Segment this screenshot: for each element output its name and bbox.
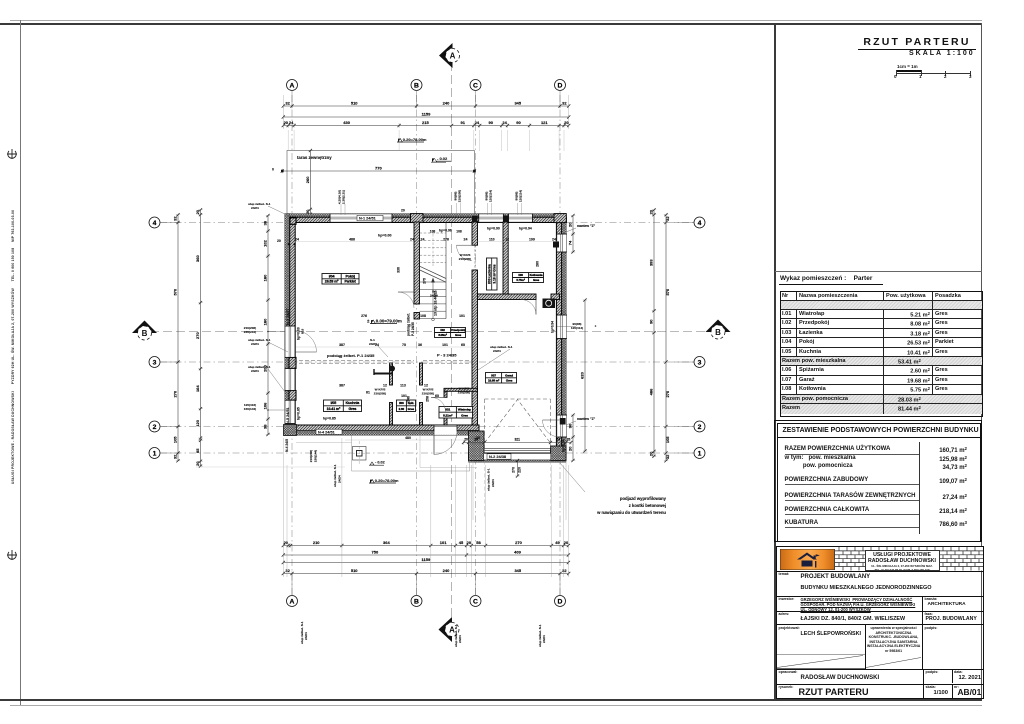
window label pair left terrace door: [244, 326, 285, 334]
title block: [776, 546, 984, 699]
garage door dashed outline: [485, 399, 551, 448]
garage inner dim chain: [462, 438, 573, 445]
svg-text:B: B: [414, 598, 419, 605]
grid axis C vertical dashed: [475, 95, 477, 597]
svg-text:387: 387: [339, 343, 345, 347]
front door leaf and swing arc: [434, 432, 457, 455]
interior wall bath-south: [478, 294, 537, 300]
projection dashed below garage door L: [484, 461, 486, 519]
svg-text:480: 480: [405, 436, 411, 440]
interior vertical dim 620 garage: [580, 298, 588, 452]
top grid circle B: [411, 80, 422, 91]
svg-text:108: 108: [430, 229, 436, 233]
svg-text:770: 770: [375, 166, 382, 171]
bottom dim chain 4: [282, 568, 571, 576]
svg-text:Garaż: Garaż: [505, 373, 513, 377]
svg-text:321: 321: [515, 438, 521, 442]
svg-text:276: 276: [361, 314, 367, 318]
svg-text:120(114): 120(114): [519, 190, 523, 202]
partition vestibule west upper: [444, 391, 447, 397]
svg-text:D: D: [558, 598, 563, 605]
svg-text:486: 486: [349, 238, 355, 242]
svg-text:65: 65: [435, 394, 439, 398]
svg-text:3: 3: [153, 359, 157, 366]
label hp=0.85 bottom window: [323, 416, 336, 420]
svg-text:Gres: Gres: [349, 407, 357, 411]
interior dim row kitchen: [339, 384, 428, 395]
svg-text:24: 24: [475, 120, 480, 125]
top section marker A: [439, 43, 460, 68]
beam P-3 dashed: [423, 361, 472, 364]
leader line window label 3: [488, 203, 492, 215]
window top wall boiler room: [509, 214, 533, 223]
svg-text:180: 180: [263, 274, 268, 281]
room schedule heading: [780, 275, 872, 282]
svg-text:24: 24: [410, 238, 414, 242]
top dim chain 2 total: [282, 112, 571, 120]
svg-text:1: 1: [153, 450, 157, 457]
vent right wall lower: [560, 418, 566, 425]
svg-text:0.20=78.00m: 0.20=78.00m: [403, 137, 427, 142]
foundation block garage right jamb: [551, 446, 567, 461]
door boiler room arc: [521, 300, 536, 315]
interior wall stair-west block: [414, 313, 420, 320]
svg-text:P-3 24/35: P-3 24/35: [411, 322, 415, 336]
svg-text:20: 20: [305, 209, 310, 214]
svg-text:26.53 m²: 26.53 m²: [325, 280, 339, 284]
svg-text:12: 12: [505, 238, 509, 242]
room label Przedpokoj I.02: [435, 328, 466, 338]
svg-text:nawiew "Z": nawiew "Z": [577, 417, 596, 421]
window label pair right: [557, 322, 596, 330]
kitchen hob: [374, 366, 395, 376]
bottom grid circle C: [470, 596, 481, 607]
beam label N-1 24/51: [357, 215, 383, 220]
svg-text:32: 32: [285, 101, 290, 106]
svg-text:24: 24: [295, 238, 299, 242]
elevation marker floor level: [367, 318, 402, 323]
svg-text:270: 270: [665, 390, 670, 397]
partition pantry-east: [420, 403, 423, 426]
svg-text:24/24: 24/24: [251, 342, 259, 346]
svg-text:20: 20: [564, 540, 569, 545]
svg-text:570: 570: [173, 288, 178, 295]
interior vertical dim 336: [397, 267, 401, 273]
top grid circle C: [470, 80, 481, 91]
right dim chain outer: [649, 208, 657, 458]
grid axis 1 horizontal dashed: [160, 452, 706, 454]
svg-text:słup żelbet. S-1: słup żelbet. S-1: [487, 468, 491, 491]
projection line below garage right: [565, 461, 567, 521]
interior dim row under top wall: [295, 238, 556, 242]
svg-text:2: 2: [698, 424, 702, 431]
svg-text:24/24: 24/24: [542, 635, 546, 643]
beam label podciag zelbet P-1 24/35: [327, 353, 375, 358]
svg-text:24/24: 24/24: [304, 632, 308, 640]
left grid circle 3: [149, 357, 160, 368]
svg-text:I/05: I/05: [331, 401, 337, 405]
wall garage front insulation: [469, 458, 567, 462]
room label Spizarnia I.06: [397, 400, 416, 412]
svg-text:235(231): 235(231): [244, 330, 256, 334]
svg-text:510: 510: [351, 568, 358, 573]
svg-text:816: 816: [301, 329, 305, 334]
svg-text:387: 387: [339, 384, 345, 388]
door terrace arc: [295, 331, 316, 352]
wall exterior top masonry: [287, 217, 567, 222]
wall exterior top insulation: [287, 214, 567, 218]
right dim chain inner: [664, 213, 670, 462]
wall exterior bottom masonry: [287, 425, 480, 431]
svg-text:5.21m²: 5.21m²: [443, 413, 452, 417]
room label Wiatrolap I.01: [439, 407, 473, 419]
svg-text:D: D: [558, 82, 563, 89]
window right wall garage: [556, 415, 567, 437]
svg-text:20: 20: [649, 451, 654, 456]
svg-text:110: 110: [489, 238, 495, 242]
svg-text:C: C: [473, 82, 478, 89]
svg-text:hp=0.94: hp=0.94: [551, 321, 555, 333]
svg-text:24: 24: [421, 238, 425, 242]
label hp=0.90 bath window: [430, 228, 462, 233]
svg-text:C: C: [473, 598, 478, 605]
svg-text:A: A: [290, 598, 295, 605]
svg-text:32: 32: [285, 568, 290, 573]
svg-text:Kuchnia: Kuchnia: [346, 401, 361, 405]
garage door dashed chevron: [485, 400, 551, 444]
left inner dim chain: [263, 214, 271, 436]
svg-text:hp=0.85: hp=0.85: [323, 416, 336, 420]
interior wall boiler-south: [551, 294, 560, 300]
left grid stub lines: [160, 223, 180, 454]
svg-text:75: 75: [402, 343, 406, 347]
room label Lazienka I.03 vertical: [487, 258, 498, 290]
column label S-1 bottom rotated 3: [538, 624, 546, 647]
left section marker B: [132, 321, 157, 341]
svg-text:2.60: 2.60: [399, 407, 405, 411]
svg-text:38: 38: [263, 220, 268, 225]
left margin mark bottom: [6, 549, 18, 561]
graphic scale bar: [897, 64, 918, 69]
column label S-1 lower left: [248, 365, 288, 396]
svg-text:20: 20: [568, 446, 573, 451]
right grid circle 4: [694, 217, 705, 228]
projection dashed below garage door R: [550, 461, 552, 519]
interior wall bath-boiler divider: [503, 222, 508, 294]
svg-text:270: 270: [195, 331, 200, 338]
svg-text:24/24: 24/24: [251, 369, 259, 373]
bottom grid circle D: [555, 596, 566, 607]
elevation marker driveway bottom: [369, 478, 399, 483]
svg-text:120(114): 120(114): [571, 326, 583, 330]
beam label N-4 24/51: [316, 429, 342, 434]
svg-text:24/24: 24/24: [491, 479, 495, 487]
svg-text:Gres: Gres: [455, 333, 462, 337]
projektowal row: [779, 626, 800, 630]
svg-text:750: 750: [372, 550, 379, 555]
svg-text:570: 570: [665, 288, 670, 295]
svg-text:0.00=79.00m: 0.00=79.00m: [376, 318, 402, 323]
faza cell: [925, 612, 933, 616]
left dim chain 1: [173, 213, 181, 462]
svg-text:32: 32: [665, 454, 670, 459]
interior wall hall-east upper: [472, 222, 478, 245]
svg-text:90: 90: [568, 423, 573, 428]
svg-text:2: 2: [153, 424, 157, 431]
firm name white box over bricks: [865, 550, 940, 571]
left margin rotated designer text: [11, 137, 15, 557]
left grid circle 4: [149, 217, 160, 228]
svg-text:podjazd wyprofilowany: podjazd wyprofilowany: [620, 496, 667, 501]
svg-text:510: 510: [351, 101, 358, 106]
section line B-B horizontal dashed: [150, 331, 712, 333]
svg-text:podciąg żelbet. P-1 24/35: podciąg żelbet. P-1 24/35: [327, 353, 375, 358]
svg-text:120: 120: [195, 419, 200, 426]
svg-text:49: 49: [555, 540, 560, 545]
terrace dim 260: [305, 149, 313, 216]
room label Kuchnia I.05: [324, 400, 362, 412]
svg-text:8.08m²: 8.08m²: [438, 333, 447, 337]
driveway note: [596, 496, 667, 515]
wall pilaster top B: [411, 214, 424, 223]
svg-text:36: 36: [418, 343, 422, 347]
interior dim row mid: [361, 314, 465, 318]
column label S-1 bottom rotated 1: [300, 464, 495, 644]
svg-text:A: A: [290, 82, 295, 89]
window left wall dining: [285, 369, 296, 391]
svg-text:słup żelbet. S-1: słup żelbet. S-1: [333, 464, 337, 487]
svg-text:3: 3: [698, 359, 702, 366]
boiler unit: [543, 299, 556, 309]
svg-text:Gres: Gres: [461, 413, 468, 417]
svg-text:I/01: I/01: [445, 408, 450, 412]
svg-text:B: B: [715, 328, 721, 337]
dim 20 above wall near B: [401, 209, 405, 213]
svg-text:74: 74: [568, 240, 573, 245]
svg-text:20: 20: [401, 209, 405, 213]
svg-text:I/07: I/07: [491, 373, 496, 377]
door vestibule arc: [431, 397, 446, 412]
svg-text:101: 101: [459, 314, 465, 318]
svg-text:24: 24: [552, 238, 556, 242]
svg-text:1: 1: [698, 450, 702, 457]
svg-text:20: 20: [277, 239, 281, 243]
svg-text:hp=0.94: hp=0.94: [519, 227, 532, 231]
svg-text:24/24: 24/24: [493, 349, 501, 353]
foundation block garage left jamb: [469, 431, 485, 461]
svg-text:32: 32: [173, 216, 178, 221]
interior vertical dim 280: [536, 261, 540, 267]
bottom dim chain 2: [282, 550, 570, 558]
svg-text:215: 215: [422, 120, 429, 125]
uprawnienia text: [866, 626, 922, 653]
svg-text:210(205): 210(205): [422, 392, 434, 396]
svg-text:24: 24: [289, 120, 294, 125]
wall exterior bottom insulation: [287, 431, 480, 436]
dim 20 left of wall: [277, 239, 281, 243]
top dim chain 1: [282, 101, 571, 109]
garage door label N-2 24/38: [487, 454, 511, 459]
svg-text:345: 345: [514, 101, 521, 106]
svg-text:20: 20: [567, 438, 571, 442]
label pair below wall rotated: [309, 450, 318, 462]
bottom grid circle B: [411, 596, 422, 607]
grid axis A vertical dashed: [291, 95, 293, 597]
svg-text:19.68 m²: 19.68 m²: [488, 379, 499, 383]
svg-text:Przedpokój: Przedpokój: [451, 328, 466, 332]
svg-text:210(205): 210(205): [374, 392, 386, 396]
window label pair top 2 rotated: [454, 190, 462, 202]
window label pair top 3 rotated: [485, 190, 493, 202]
svg-text:91: 91: [460, 120, 465, 125]
window top wall living room: [330, 214, 392, 223]
leader line window label 1: [341, 204, 345, 215]
window left wall kitchen: [285, 400, 296, 423]
room label Kotlownia I.08: [513, 273, 544, 283]
svg-text:Pokój: Pokój: [345, 275, 354, 279]
drawing title RZUT PARTERU: [858, 36, 976, 50]
label hp=0.90b: [487, 227, 500, 231]
svg-text:336: 336: [397, 267, 401, 273]
right wall stub dims: [568, 214, 576, 462]
rysunek row: [779, 685, 794, 689]
svg-text:5.75m²: 5.75m²: [516, 278, 525, 282]
bottom grid stub lines: [292, 574, 560, 596]
stairs break line: [420, 266, 446, 282]
svg-text:393: 393: [649, 259, 654, 266]
svg-text:150(144): 150(144): [244, 407, 256, 411]
svg-text:108: 108: [456, 229, 462, 233]
top grid circle A: [287, 80, 298, 91]
svg-text:200: 200: [263, 364, 268, 371]
svg-text:24: 24: [464, 238, 468, 242]
svg-text:32: 32: [562, 568, 567, 573]
svg-text:345: 345: [514, 568, 521, 573]
svg-text:85: 85: [195, 448, 200, 453]
svg-text:276: 276: [443, 238, 449, 242]
grid axis B vertical dashed: [416, 95, 418, 597]
top grid circle D: [555, 80, 566, 91]
svg-text:32: 32: [173, 454, 178, 459]
svg-text:106: 106: [263, 402, 268, 409]
corner column top-left: [290, 218, 296, 225]
svg-text:N-2 24/38: N-2 24/38: [489, 454, 507, 459]
window label pair kitchen interior 2: [422, 388, 434, 396]
left grid circle 1: [149, 448, 160, 459]
window right wall 2: [556, 315, 567, 339]
svg-text:409: 409: [514, 550, 521, 555]
temat row: [779, 572, 790, 576]
wall exterior right insulation: [562, 214, 567, 461]
subtitle SKALA 1:100: [909, 50, 975, 57]
svg-text:45: 45: [459, 540, 464, 545]
svg-text:90: 90: [516, 120, 521, 125]
interior dim row beam: [296, 343, 472, 347]
svg-text:I/08: I/08: [518, 273, 523, 277]
signature diagonal cells: [777, 654, 923, 669]
svg-text:24/24: 24/24: [251, 206, 259, 210]
kitchen beam P-1 dashed: [293, 361, 414, 364]
column label S-1 center: [369, 290, 438, 358]
svg-text:108: 108: [420, 314, 426, 318]
svg-text:I/06: I/06: [399, 401, 404, 405]
window label pair top 4 rotated: [515, 190, 523, 202]
bottom grid circle A: [287, 596, 298, 607]
svg-text:B: B: [142, 329, 148, 338]
page frame: heavy bottom line: [0, 699, 982, 701]
svg-text:- 0.02: - 0.02: [375, 461, 385, 465]
label hp=0.85 kitchen window rotated: [297, 407, 301, 420]
branza cell: [921, 596, 924, 625]
svg-text:B: B: [414, 82, 419, 89]
elevation marker -0.02 terrace: [431, 156, 451, 162]
garage front dim 270: [512, 459, 522, 478]
svg-text:0: 0: [272, 168, 274, 172]
terrace dim 770: [272, 166, 476, 174]
svg-text:24: 24: [556, 438, 560, 442]
left grid circle 2: [149, 421, 160, 432]
svg-text:210(205): 210(205): [458, 391, 470, 395]
window label pair hall interior: [458, 253, 471, 395]
stair beam label P-3 rotated: [407, 313, 416, 336]
wall exterior left masonry: [290, 217, 296, 431]
svg-text:210(205): 210(205): [458, 190, 462, 202]
svg-text:105: 105: [173, 436, 178, 443]
svg-text:220: 220: [518, 467, 522, 473]
vertical divider of summary box: [918, 442, 921, 534]
svg-text:240: 240: [443, 101, 450, 106]
svg-text:20: 20: [467, 540, 472, 545]
dim 480 below bottom wall: [345, 436, 480, 440]
door garage arc: [543, 420, 560, 437]
svg-text:364: 364: [383, 540, 390, 545]
driveway leader line: [560, 463, 585, 492]
page frame: thin bottom line: [10, 705, 982, 706]
right grid circle 3: [694, 357, 705, 368]
svg-text:164: 164: [195, 385, 200, 392]
svg-text:4: 4: [153, 220, 157, 227]
section line A-A vertical dashed: [451, 62, 453, 626]
leader line window label 4: [518, 203, 522, 215]
svg-text:101: 101: [440, 540, 447, 545]
top extension lines: [283, 95, 568, 129]
column label S-1 garage: [478, 345, 513, 370]
svg-text:4: 4: [698, 220, 702, 227]
chimney vent block top wall: [503, 216, 508, 222]
svg-text:Gres: Gres: [533, 278, 540, 282]
room label Pokoj I.04: [322, 274, 359, 285]
svg-text:3.18 m² Gres: 3.18 m² Gres: [492, 264, 496, 283]
svg-text:24: 24: [502, 120, 507, 125]
foundation block bottom-left corner: [284, 425, 297, 436]
vent right wall upper: [553, 242, 559, 248]
svg-text:270: 270: [173, 390, 178, 397]
entrance porch outline: [296, 436, 470, 472]
svg-text:280: 280: [536, 261, 540, 267]
svg-text:N-4 24/51: N-4 24/51: [318, 430, 335, 434]
beam label N-3 24/27 rotated: [286, 308, 290, 325]
window label pair kitchen interior 1: [374, 388, 386, 396]
svg-text:20: 20: [195, 209, 200, 214]
svg-text:102: 102: [263, 239, 268, 246]
svg-text:486: 486: [649, 388, 654, 395]
logo orange house emblem: [780, 549, 835, 570]
label hp=0.94 boiler window: [519, 227, 532, 231]
svg-text:hp=0.94: hp=0.94: [562, 439, 566, 452]
svg-text:- 0.02: - 0.02: [437, 156, 448, 161]
svg-text:I/04: I/04: [329, 275, 335, 279]
window top wall bathroom: [479, 214, 504, 223]
